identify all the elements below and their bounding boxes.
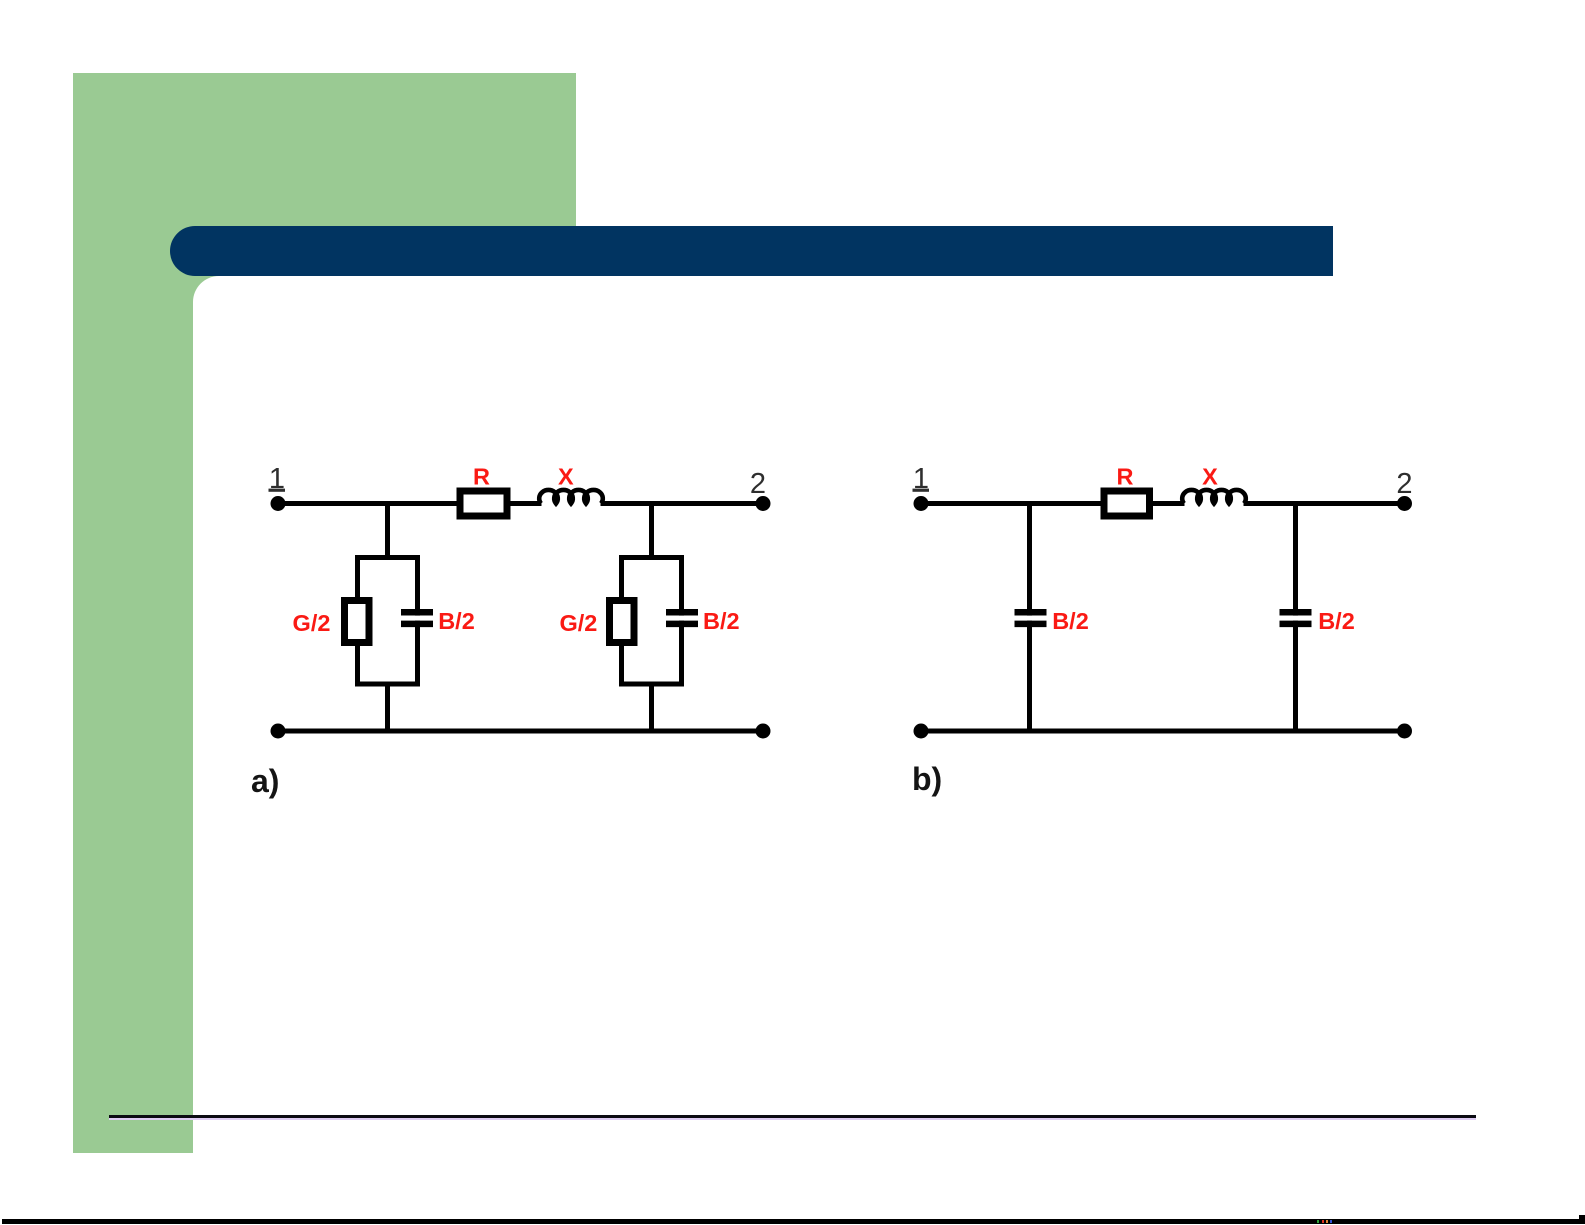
resistor R (circuit b): [1104, 491, 1150, 516]
navy title bar: [170, 226, 1333, 276]
bottom band right tick: [1579, 1215, 1585, 1223]
svg-text:X: X: [1202, 464, 1218, 490]
terminal dots (circuit a): [271, 496, 771, 739]
wire: bottom rail: [278, 729, 763, 734]
white content area with rounded top-left corner: [193, 276, 1585, 1225]
capacitor B/2 right (circuit a) gap: [675, 616, 690, 621]
wire: top rail left segment: [921, 501, 1185, 506]
wire: right shunt stem bottom: [649, 684, 654, 731]
resistor G/2 right (circuit a): [610, 601, 635, 643]
footer divider lavender line: [109, 1118, 1476, 1120]
svg-text:R: R: [1117, 464, 1134, 490]
capacitor B/2 left (circuit a) gap: [410, 616, 425, 621]
capacitor B/2 left (circuit b) gap: [1022, 616, 1037, 621]
svg-text:B/2: B/2: [438, 608, 475, 634]
green left sidebar strip: [73, 73, 193, 1153]
svg-text:G/2: G/2: [559, 610, 597, 636]
wire: bottom rail: [921, 729, 1405, 734]
inductor X (circuit a): [539, 490, 603, 504]
wire: right shunt stem top: [649, 504, 654, 559]
green top-left rectangle: [73, 73, 576, 310]
capacitor B/2 right (circuit b) plates: [1280, 612, 1312, 624]
wire: left shunt branch: [1027, 504, 1032, 732]
wire: left shunt stem bottom: [385, 684, 390, 731]
resistor R (circuit a): [460, 491, 507, 516]
svg-text:X: X: [558, 464, 574, 490]
inductor X (circuit b): [1182, 490, 1246, 504]
wire: top rail left segment: [278, 501, 542, 506]
svg-text:G/2: G/2: [293, 610, 331, 636]
svg-text:a): a): [251, 763, 279, 799]
wire: right shunt branch: [1293, 504, 1298, 732]
node 1 base bar (circuit b): [913, 489, 930, 492]
svg-text:B/2: B/2: [703, 608, 740, 634]
capacitor B/2 left (circuit a) plates: [401, 612, 433, 624]
svg-text:B/2: B/2: [1318, 608, 1355, 634]
capacitor B/2 left (circuit b) plates: [1015, 612, 1047, 624]
bottom black band: [2, 1219, 1585, 1224]
svg-text:b): b): [912, 761, 942, 797]
svg-text:2: 2: [750, 468, 766, 500]
tiny colored page-number specks: [1317, 1220, 1319, 1223]
node: right parallel loop: [622, 558, 682, 685]
wire: top rail right segment: [601, 501, 764, 506]
capacitor B/2 right (circuit b) gap: [1288, 616, 1303, 621]
svg-text:R: R: [473, 464, 490, 490]
node: left parallel loop: [358, 558, 418, 685]
footer divider black line: [109, 1115, 1476, 1118]
svg-text:2: 2: [1396, 468, 1412, 500]
resistor G/2 left (circuit a): [345, 601, 370, 643]
wire: left shunt stem top: [385, 504, 390, 559]
node 1 base bar (circuit a): [269, 489, 286, 492]
terminal dots (circuit b): [914, 496, 1413, 739]
capacitor B/2 right (circuit a) plates: [666, 612, 698, 624]
svg-text:B/2: B/2: [1052, 608, 1089, 634]
wire: top rail right segment: [1244, 501, 1405, 506]
